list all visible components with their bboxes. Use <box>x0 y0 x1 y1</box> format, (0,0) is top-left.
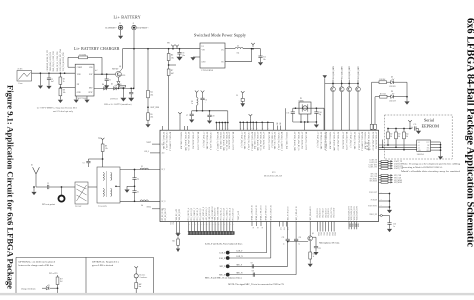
svg-text:C17: C17 <box>251 262 254 264</box>
svg-text:LED GRN: LED GRN <box>389 100 397 102</box>
svg-text:A7 VDD_PADS_3V3: A7 VDD_PADS_3V3 <box>301 132 304 149</box>
svg-text:PIO6: PIO6 <box>334 233 336 236</box>
svg-text:A7 VDD_PADS_3V3: A7 VDD_PADS_3V3 <box>341 132 344 149</box>
svg-text:VIN_5V0_SUPPLY_PIN5: VIN_5V0_SUPPLY_PIN5 <box>63 52 65 71</box>
svg-text:G5 VDD_RADIO_DRV: G5 VDD_RADIO_DRV <box>184 132 187 152</box>
svg-text:VDD_PADS_3 F6: VDD_PADS_3 F6 <box>355 206 358 220</box>
svg-text:MIC: MIC <box>139 284 142 286</box>
svg-text:10u: 10u <box>182 55 185 57</box>
svg-text:Switched Mode Power Supply: Switched Mode Power Supply <box>194 32 246 37</box>
svg-text:D2 VBAT_CHG_SNS: D2 VBAT_CHG_SNS <box>353 132 356 149</box>
svg-text:SPKR_P E8 AN IO: SPKR_P E8 AN IO <box>265 205 268 220</box>
svg-text:BATTERY +: BATTERY + <box>137 27 150 30</box>
svg-text:BT_RF_IO N1: BT_RF_IO N1 <box>162 209 164 220</box>
svg-text:NC: NC <box>256 227 258 229</box>
svg-text:PIO1: PIO1 <box>320 233 322 236</box>
svg-text:H2 VDD_ANA_RF_IO: H2 VDD_ANA_RF_IO <box>337 132 340 151</box>
svg-text:22k: 22k <box>406 136 409 138</box>
svg-text:C1 VDD_PIO_AUX_1: C1 VDD_PIO_AUX_1 <box>209 132 212 150</box>
svg-text:Condenser: Condenser <box>140 277 148 279</box>
svg-text:PIO8_LED_DRV2: PIO8_LED_DRV2 <box>349 66 351 79</box>
svg-text:MIC_N B9 AN IO: MIC_N B9 AN IO <box>295 206 298 221</box>
svg-text:B6 AUX_DAC_OUT1: B6 AUX_DAC_OUT1 <box>268 132 271 150</box>
svg-text:EAR_P: EAR_P <box>237 250 243 253</box>
svg-text:H2 VDD_ANA_RF_IO: H2 VDD_ANA_RF_IO <box>259 132 262 151</box>
svg-text:EAR_P and EAR_N are balanced l: EAR_P and EAR_N are balanced lines <box>205 243 242 246</box>
svg-text:VDD1: VDD1 <box>351 223 353 227</box>
svg-text:PIO_3 K5 IO_D: PIO_3 K5 IO_D <box>230 207 232 220</box>
svg-text:SPKR_C F9 AN IO: SPKR_C F9 AN IO <box>260 205 263 221</box>
svg-text:C7 TEST_EN_IO_2: C7 TEST_EN_IO_2 <box>202 132 204 148</box>
svg-text:SNS: SNS <box>89 67 92 69</box>
svg-text:C5: C5 <box>137 192 139 194</box>
svg-text:PIO0: PIO0 <box>317 233 319 236</box>
svg-text:PIO4: PIO4 <box>328 233 330 236</box>
svg-text:TST: TST <box>279 228 281 231</box>
svg-text:16MHz: 16MHz <box>299 100 304 102</box>
svg-text:PIO5: PIO5 <box>331 233 333 236</box>
svg-text:WP: WP <box>427 145 429 147</box>
svg-text:C7 TEST_EN_IO_2: C7 TEST_EN_IO_2 <box>240 132 242 148</box>
svg-text:AIO_0 M7 AN_1: AIO_0 M7 AN_1 <box>202 207 205 220</box>
svg-text:R11 2k2: R11 2k2 <box>380 93 386 95</box>
svg-text:SPI_MOSI: SPI_MOSI <box>369 181 377 183</box>
svg-text:D2 VBAT_CHG_SNS: D2 VBAT_CHG_SNS <box>162 132 165 149</box>
svg-text:EEPROM: EEPROM <box>422 123 440 128</box>
svg-text:PCM_OUT: PCM_OUT <box>369 192 377 194</box>
svg-text:TP3: TP3 <box>98 138 101 140</box>
svg-text:22k: 22k <box>398 136 401 138</box>
svg-text:Microphone DC bias: Microphone DC bias <box>319 242 339 245</box>
svg-text:LTC1474ES8: LTC1474ES8 <box>202 70 213 72</box>
svg-text:B3 VDD_LO_INPUT_2: B3 VDD_LO_INPUT_2 <box>216 132 218 151</box>
svg-text:VDD_PADS_2 F5: VDD_PADS_2 F5 <box>353 206 356 220</box>
svg-text:2.5mm: 2.5mm <box>18 83 23 85</box>
svg-text:PIO9_LED_DRV3: PIO9_LED_DRV3 <box>358 66 360 79</box>
svg-text:R12: R12 <box>390 134 393 136</box>
svg-text:B6 AUX_DAC_OUT1: B6 AUX_DAC_OUT1 <box>232 132 235 150</box>
svg-text:Serial: Serial <box>424 118 435 123</box>
svg-text:22k: 22k <box>390 136 393 138</box>
svg-text:24LC64: 24LC64 <box>417 154 424 156</box>
svg-text:F2 VDD_CORE_1V8: F2 VDD_CORE_1V8 <box>219 132 221 149</box>
svg-text:bias: bias <box>139 286 142 288</box>
svg-text:GND: GND <box>77 92 82 94</box>
svg-text:EAR_N: EAR_N <box>219 257 226 260</box>
svg-text:PIO_4 L6 IO_E: PIO_4 L6 IO_E <box>200 207 202 220</box>
svg-text:H2 VDD_ANA_RF_IO: H2 VDD_ANA_RF_IO <box>187 132 190 151</box>
svg-text:1k: 1k <box>313 256 315 258</box>
svg-text:F2 VDD_CORE_1V8: F2 VDD_CORE_1V8 <box>329 132 331 149</box>
svg-text:C7: C7 <box>186 115 188 117</box>
svg-text:B3 VDD_LO_INPUT_2: B3 VDD_LO_INPUT_2 <box>325 132 327 151</box>
svg-text:D2 VBAT_CHG_SNS: D2 VBAT_CHG_SNS <box>320 132 323 149</box>
svg-text:2k2: 2k2 <box>60 281 63 283</box>
svg-text:R17: R17 <box>60 279 63 281</box>
svg-text:VCC: VCC <box>426 142 429 144</box>
svg-text:L4: L4 <box>141 205 143 207</box>
svg-text:PIO_5 J2 IO: PIO_5 J2 IO <box>317 208 319 218</box>
svg-text:C18: C18 <box>252 271 255 273</box>
svg-text:PIO_11 J8 IO: PIO_11 J8 IO <box>334 207 336 217</box>
svg-text:FZT749: FZT749 <box>112 68 118 70</box>
svg-text:U2: U2 <box>202 46 204 48</box>
svg-text:RF_P: RF_P <box>162 169 166 171</box>
svg-text:PIO3: PIO3 <box>325 233 327 236</box>
svg-text:R14: R14 <box>406 134 409 136</box>
svg-text:MIC_P: MIC_P <box>220 266 226 268</box>
svg-text:and CS dual opt only: and CS dual opt only <box>53 110 74 113</box>
svg-text:CHARGER_SENSE_IN_5V0: CHARGER_SENSE_IN_5V0 <box>46 50 49 71</box>
svg-text:green LED is desired: green LED is desired <box>92 264 114 267</box>
svg-text:C1 VDD_PIO_AUX_1: C1 VDD_PIO_AUX_1 <box>358 132 361 150</box>
svg-text:C22: C22 <box>318 248 321 250</box>
svg-text:SPI_MOSI: SPI_MOSI <box>394 182 402 184</box>
svg-text:A7 VDD_PADS_3V3: A7 VDD_PADS_3V3 <box>375 132 378 149</box>
svg-text:10k: 10k <box>63 92 66 94</box>
svg-text:VSS_RF_A P2: VSS_RF_A P2 <box>175 209 178 220</box>
svg-text:C15: C15 <box>414 124 417 126</box>
svg-text:F2 VDD_CORE_1V8: F2 VDD_CORE_1V8 <box>253 132 255 149</box>
svg-text:VREG_EN: VREG_EN <box>369 214 377 216</box>
svg-text:SPKR_A H9 AN IO: SPKR_A H9 AN IO <box>251 204 254 220</box>
svg-text:10u: 10u <box>263 59 266 61</box>
svg-text:F2 VDD_CORE_1V8: F2 VDD_CORE_1V8 <box>364 132 366 149</box>
svg-text:F2 VDD_CORE_1V8: F2 VDD_CORE_1V8 <box>285 132 287 149</box>
svg-text:1u: 1u <box>299 244 301 246</box>
svg-text:PIO_2 M4 IO_C: PIO_2 M4 IO_C <box>194 207 196 220</box>
svg-text:B3 VDD_LO_INPUT_2: B3 VDD_LO_INPUT_2 <box>168 132 170 151</box>
svg-text:BATTERY -: BATTERY - <box>106 27 118 30</box>
svg-text:VDD: VDD <box>77 74 82 76</box>
svg-text:USB_DN M9 IO2: USB_DN M9 IO2 <box>212 206 214 220</box>
svg-text:B3 VDD_LO_INPUT_2: B3 VDD_LO_INPUT_2 <box>361 132 363 151</box>
svg-text:MIC_P and MIC_N are balanced l: MIC_P and MIC_N are balanced lines <box>205 277 242 280</box>
svg-text:PIO_2 M4 IO_C: PIO_2 M4 IO_C <box>227 207 229 220</box>
svg-text:C7 TEST_EN_IO_2: C7 TEST_EN_IO_2 <box>349 132 351 148</box>
svg-text:C1 VDD_PIO_AUX_1: C1 VDD_PIO_AUX_1 <box>247 132 250 150</box>
svg-text:TP1: TP1 <box>167 43 170 45</box>
svg-text:22k: 22k <box>150 117 153 119</box>
svg-text:VDD_PADS_0 F3: VDD_PADS_0 F3 <box>348 206 351 220</box>
svg-text:10u: 10u <box>237 52 240 54</box>
svg-text:EAR_N: EAR_N <box>237 255 244 258</box>
svg-text:MIC_BIAS A8 IO: MIC_BIAS A8 IO <box>309 206 312 221</box>
svg-text:converting to Mask’ed ROM BC21: converting to Mask’ed ROM BC212015A <box>402 166 443 169</box>
svg-text:A7 VDD_PADS_3V3: A7 VDD_PADS_3V3 <box>262 132 265 149</box>
svg-text:AIO_1 K8 AN_2: AIO_1 K8 AN_2 <box>205 207 208 220</box>
svg-text:PIO_4 L6 IO_E: PIO_4 L6 IO_E <box>232 207 234 220</box>
svg-text:10k: 10k <box>171 57 174 59</box>
svg-text:1u: 1u <box>191 103 193 105</box>
svg-text:Figure 9.1: Application Circui: Figure 9.1: Application Circuit for 6x6 … <box>6 85 15 289</box>
svg-text:USB_DN_IO_CONN_PIN2: USB_DN_IO_CONN_PIN2 <box>53 51 55 71</box>
svg-text:AIO_0: AIO_0 <box>144 150 149 153</box>
svg-text:G5 VDD_RADIO_DRV: G5 VDD_RADIO_DRV <box>293 132 296 152</box>
svg-text:J2: J2 <box>119 23 121 25</box>
svg-text:MBR0520: MBR0520 <box>119 75 126 77</box>
svg-text:+: + <box>205 102 206 104</box>
svg-text:J3 DC: J3 DC <box>18 69 24 71</box>
svg-text:C2: C2 <box>47 183 49 185</box>
svg-text:G5 VDD_RADIO_DRV: G5 VDD_RADIO_DRV <box>256 132 259 152</box>
svg-text:PIO6_LED_DRV0: PIO6_LED_DRV0 <box>333 66 335 79</box>
svg-text:PIO_7 J4 IO: PIO_7 J4 IO <box>323 208 325 218</box>
svg-text:Charger LED pin: Charger LED pin <box>21 287 35 290</box>
svg-text:C7 TEST_EN_IO_2: C7 TEST_EN_IO_2 <box>270 132 272 148</box>
svg-text:4k7: 4k7 <box>171 73 174 75</box>
svg-text:D2 VBAT_CHG_SNS: D2 VBAT_CHG_SNS <box>206 132 209 149</box>
svg-text:A7 VDD_PADS_3V3: A7 VDD_PADS_3V3 <box>228 132 231 149</box>
svg-text:C1 VDD_PIO_AUX_1: C1 VDD_PIO_AUX_1 <box>277 132 280 150</box>
svg-text:FL1 B4?: FL1 B4? <box>75 206 82 208</box>
svg-text:SCL: SCL <box>427 148 430 150</box>
svg-text:L2: L2 <box>237 46 239 48</box>
svg-text:PIO_0 K2 IO_A: PIO_0 K2 IO_A <box>220 207 223 220</box>
svg-text:PIO2: PIO2 <box>323 233 325 236</box>
svg-text:NC: NC <box>252 227 254 229</box>
svg-text:VSS_RF_B P3: VSS_RF_B P3 <box>179 209 181 220</box>
svg-text:RF test point: RF test point <box>42 203 55 206</box>
svg-text:1u: 1u <box>393 226 395 228</box>
svg-text:PIO7_LED_DRV1: PIO7_LED_DRV1 <box>342 66 344 79</box>
svg-text:LED RED: LED RED <box>389 86 397 88</box>
svg-text:G5 VDD_RADIO_DRV: G5 VDD_RADIO_DRV <box>333 132 336 152</box>
svg-text:USB_DP_IO_CONN_PIN3: USB_DP_IO_CONN_PIN3 <box>57 51 59 71</box>
svg-text:D1: D1 <box>391 76 393 78</box>
svg-text:VDD_PADS_1 F4: VDD_PADS_1 F4 <box>350 206 353 220</box>
svg-text:4u7: 4u7 <box>51 81 54 83</box>
svg-text:BC212015A PLAN: BC212015A PLAN <box>264 174 282 177</box>
svg-text:F2 VDD_CORE_1V8: F2 VDD_CORE_1V8 <box>180 132 182 149</box>
svg-text:PCM_SYNC: PCM_SYNC <box>368 205 378 207</box>
svg-text:MIC_N: MIC_N <box>237 273 244 275</box>
svg-text:PIO_1 L3 IO_B: PIO_1 L3 IO_B <box>191 207 193 220</box>
svg-text:C2: C2 <box>109 79 111 81</box>
svg-text:C14: C14 <box>319 112 322 114</box>
svg-text:PIO_8 J5 IO: PIO_8 J5 IO <box>325 208 327 218</box>
svg-text:UART_CTS: UART_CTS <box>394 167 403 170</box>
svg-text:H2 VDD_ANA_RF_IO: H2 VDD_ANA_RF_IO <box>371 132 374 151</box>
svg-text:E1: E1 <box>31 165 33 167</box>
svg-text:VBUS_USB_CONN_PIN1: VBUS_USB_CONN_PIN1 <box>50 52 52 71</box>
svg-text:Li+ BATTERY CHARGER: Li+ BATTERY CHARGER <box>74 47 120 51</box>
svg-text:R15: R15 <box>172 241 175 243</box>
svg-text:B6 AUX_DAC_OUT1: B6 AUX_DAC_OUT1 <box>345 132 348 150</box>
svg-text:C10: C10 <box>212 115 215 117</box>
svg-text:NOTE: The signal MIC_N is to b: NOTE: The signal MIC_N is to be connecte… <box>228 283 284 286</box>
svg-text:D2: D2 <box>391 91 393 93</box>
svg-text:GND: GND <box>202 62 207 64</box>
svg-text:C4: C4 <box>137 179 139 181</box>
svg-text:L5: L5 <box>236 95 238 97</box>
svg-text:1u: 1u <box>283 244 285 246</box>
svg-text:LED of Li+ BATTS (standalone): LED of Li+ BATTS (standalone) <box>104 103 132 106</box>
svg-text:VSS: VSS <box>418 150 421 152</box>
svg-text:SPKR_N D9 AN IO: SPKR_N D9 AN IO <box>270 204 273 220</box>
svg-text:EAR_P: EAR_P <box>219 251 225 254</box>
svg-text:Q2: Q2 <box>312 233 314 235</box>
svg-text:R13: R13 <box>398 134 401 136</box>
svg-text:10k: 10k <box>105 148 108 150</box>
svg-text:M3: M3 <box>169 222 171 224</box>
svg-text:TEST_A G9: TEST_A G9 <box>237 211 240 221</box>
svg-text:K4: K4 <box>172 222 174 224</box>
svg-text:GND_CHARGER_RET_PIN4: GND_CHARGER_RET_PIN4 <box>59 49 62 71</box>
svg-text:PIO_3 K5 IO_D: PIO_3 K5 IO_D <box>197 207 199 220</box>
svg-text:B6 AUX_DAC_OUT1: B6 AUX_DAC_OUT1 <box>196 132 199 150</box>
svg-text:PIO_1 L3 IO_B: PIO_1 L3 IO_B <box>224 207 226 220</box>
svg-text:BT_RF_BG N2: BT_RF_BG N2 <box>165 208 167 220</box>
svg-text:VSS_PADS J7 0: VSS_PADS J7 0 <box>214 208 217 221</box>
svg-text:PIO-x PIO: PIO-x PIO <box>49 273 58 275</box>
svg-text:H2 VDD_ANA_RF_IO: H2 VDD_ANA_RF_IO <box>297 132 300 151</box>
svg-text:Note: If using as a developmen: Note: If using as a development part bef… <box>402 163 461 166</box>
svg-text:COMP: COMP <box>77 67 82 69</box>
svg-text:B3 VDD_LO_INPUT_2: B3 VDD_LO_INPUT_2 <box>280 132 282 151</box>
svg-text:22k: 22k <box>150 94 153 96</box>
svg-text:MIC_P: MIC_P <box>237 264 243 266</box>
svg-text:BAT_SNS: BAT_SNS <box>151 106 159 109</box>
svg-text:D2 VBAT_CHG_SNS: D2 VBAT_CHG_SNS <box>273 132 276 149</box>
svg-text:R10 2k2: R10 2k2 <box>380 79 386 81</box>
svg-text:J1: J1 <box>133 23 135 25</box>
svg-text:PIO_0 K2 IO_A: PIO_0 K2 IO_A <box>187 207 190 220</box>
svg-text:XSEL: XSEL <box>147 207 152 209</box>
svg-text:D5: D5 <box>111 84 113 86</box>
svg-text:SPKR_B G8 AN IO: SPKR_B G8 AN IO <box>255 204 258 220</box>
svg-text:T1 BALUN: T1 BALUN <box>98 205 107 208</box>
svg-text:PIO_6 J3 IO: PIO_6 J3 IO <box>320 208 322 218</box>
svg-text:VDD2: VDD2 <box>354 223 356 227</box>
svg-text:Li+ BATTERY: Li+ BATTERY <box>114 14 141 19</box>
svg-text:4u7: 4u7 <box>95 70 98 72</box>
svg-text:Q1: Q1 <box>119 66 121 68</box>
svg-text:22p: 22p <box>319 114 322 116</box>
svg-text:TST: TST <box>283 228 285 231</box>
svg-text:L3: L3 <box>141 166 143 168</box>
svg-text:C16: C16 <box>393 224 396 226</box>
svg-text:VSS_CORE H6 1: VSS_CORE H6 1 <box>218 207 220 221</box>
svg-text:B3 VDD_LO_INPUT_2: B3 VDD_LO_INPUT_2 <box>250 132 252 151</box>
svg-text:UART_CTS: UART_CTS <box>369 166 377 169</box>
svg-text:C3: C3 <box>83 162 85 164</box>
svg-text:VDD3: VDD3 <box>356 223 358 227</box>
svg-text:C1 VDD_PIO_AUX_1: C1 VDD_PIO_AUX_1 <box>165 132 168 150</box>
svg-text:C20: C20 <box>299 237 302 239</box>
svg-text:B6 AUX_DAC_OUT1: B6 AUX_DAC_OUT1 <box>304 132 307 150</box>
svg-text:6x6 LFBGA 84-Ball Package Appl: 6x6 LFBGA 84-Ball Package Application Sc… <box>464 18 474 247</box>
svg-text:MIC_P C8 AN IO: MIC_P C8 AN IO <box>286 206 289 220</box>
svg-text:PCM_IN: PCM_IN <box>371 199 378 201</box>
svg-text:LTST-S320: LTST-S320 <box>110 99 118 101</box>
svg-text:1k: 1k <box>63 81 65 83</box>
svg-text:PIO_9 J6 IO: PIO_9 J6 IO <box>328 208 330 218</box>
svg-text:Mask’ed builds this circuitry: Mask’ed builds this circuitry may be omi… <box>401 170 461 173</box>
svg-text:C7 TEST_EN_IO_2: C7 TEST_EN_IO_2 <box>316 132 318 148</box>
svg-text:VDD0: VDD0 <box>349 223 351 227</box>
svg-text:D2 VBAT_CHG_SNS: D2 VBAT_CHG_SNS <box>243 132 246 149</box>
svg-text:C19: C19 <box>282 237 285 239</box>
svg-text:between the charger and a PIO: between the charger and a PIO line <box>19 264 55 267</box>
svg-text:G5 VDD_RADIO_DRV: G5 VDD_RADIO_DRV <box>222 132 225 152</box>
svg-text:USB_DP L9 IO1: USB_DP L9 IO1 <box>209 207 211 220</box>
svg-text:H2 VDD_ANA_RF_IO: H2 VDD_ANA_RF_IO <box>225 132 228 151</box>
svg-text:D4: D4 <box>102 84 104 86</box>
svg-text:C13: C13 <box>287 113 290 115</box>
svg-text:PIO_10 J7 IO: PIO_10 J7 IO <box>331 207 333 217</box>
svg-text:NC: NC <box>261 227 263 229</box>
svg-text:G5 VDD_RADIO_DRV: G5 VDD_RADIO_DRV <box>367 132 370 152</box>
svg-text:A7 VDD_PADS_3V3: A7 VDD_PADS_3V3 <box>192 132 195 149</box>
